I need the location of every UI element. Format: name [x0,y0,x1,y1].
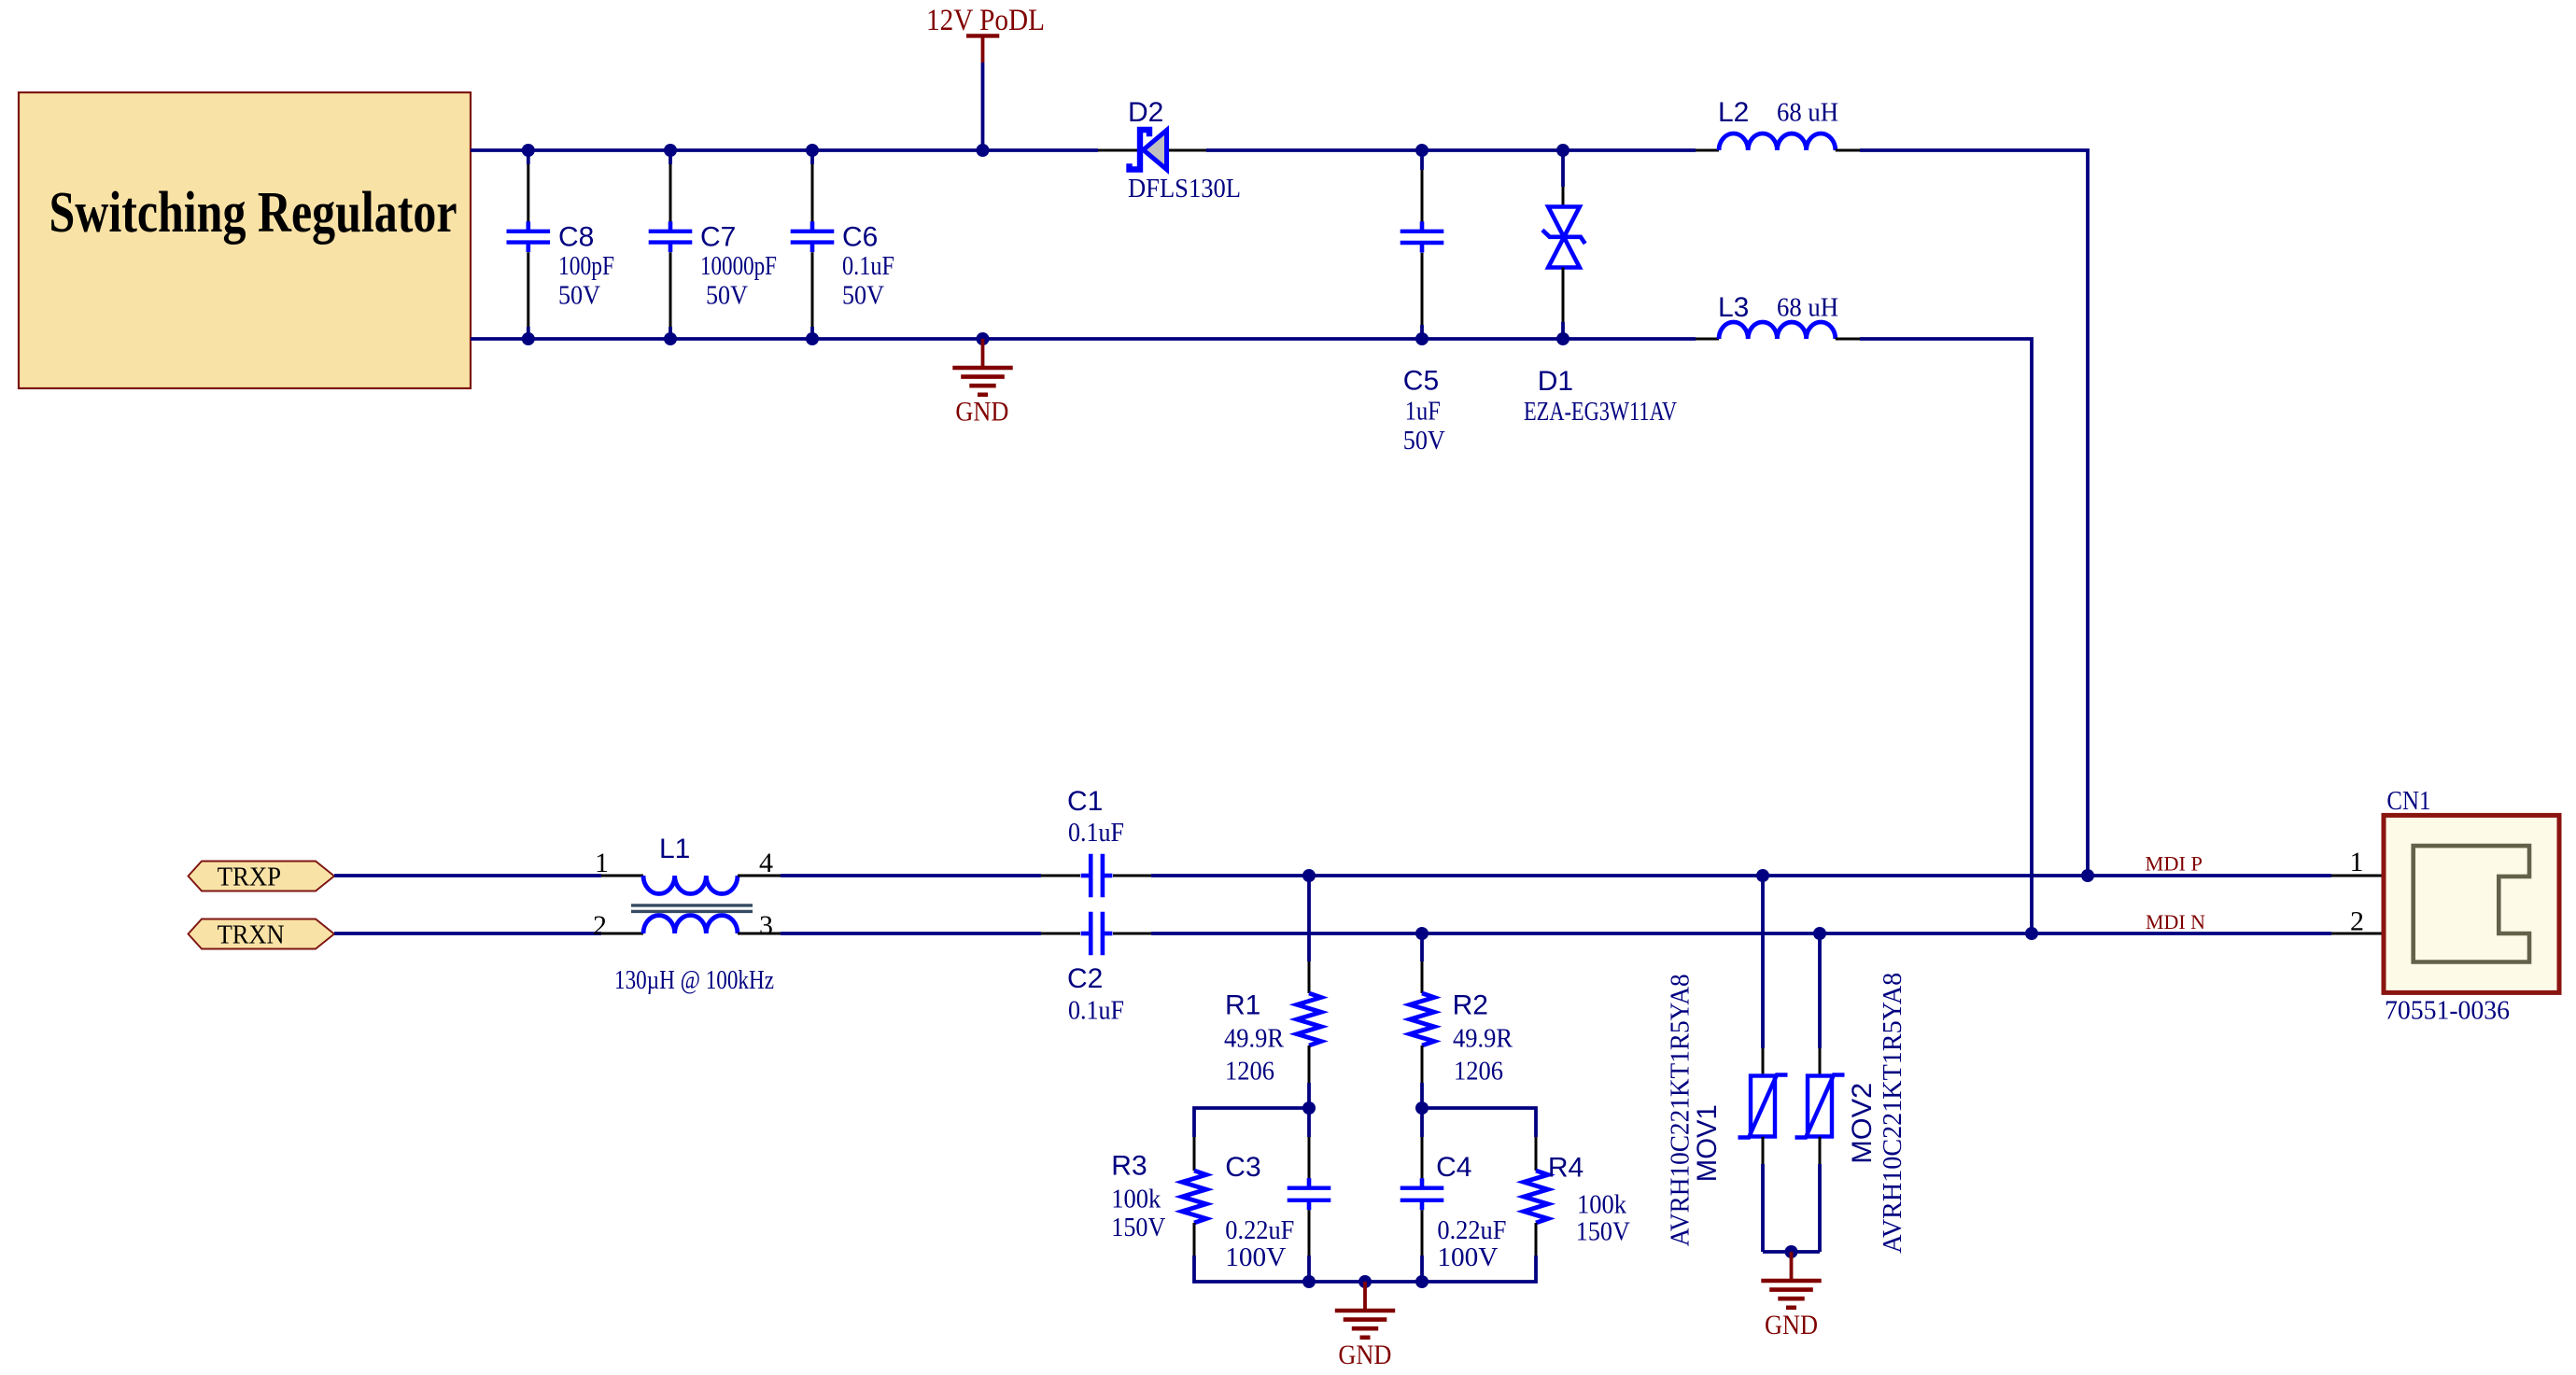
svg-text:1206: 1206 [1454,1058,1503,1087]
svg-text:GND: GND [1338,1340,1391,1370]
port TRXP [189,862,335,891]
svg-text:1uF: 1uF [1405,398,1441,427]
wire: bottom rail L3 to corner and down to MDI_N [1860,339,2032,933]
common-mode choke L1 130uH@100kHz [601,875,643,877]
wire: TRXP to L1 pin1 [334,874,601,877]
wire: top rail D2 to L2 [1206,148,1696,152]
svg-text:50V: 50V [1403,427,1445,456]
svg-text:C5: C5 [1403,366,1439,397]
diode D2 DFLS130L schottky [1098,149,1137,152]
svg-text:C8: C8 [558,222,594,253]
ground symbol GND (upper) [981,339,985,368]
capacitor C4 0.22uF 100V [1420,1108,1424,1137]
svg-text:130µH @ 100kHz: 130µH @ 100kHz [614,966,774,995]
svg-text:MOV1: MOV1 [1692,1104,1723,1182]
svg-text:MOV2: MOV2 [1847,1083,1878,1164]
svg-text:0.1uF: 0.1uF [1068,819,1124,848]
svg-text:MDI P: MDI P [2146,852,2203,876]
svg-text:AVRH10C221KT1R5YA8: AVRH10C221KT1R5YA8 [1667,974,1696,1246]
svg-text:100k: 100k [1111,1186,1161,1214]
svg-text:L1: L1 [659,834,690,864]
varistor MOV1 AVRH10C221KT1R5YA8 [1756,869,1769,882]
svg-text:MDI N: MDI N [2146,910,2205,933]
varistor MOV2 AVRH10C221KT1R5YA8 [1813,927,1826,940]
capacitor C8 100pF 50V [522,144,535,157]
junction GND stub on RC rail [1358,1275,1372,1288]
junction R1/C3 node [1302,1101,1316,1115]
capacitor C1 0.1uF [1041,875,1080,877]
wire: R1 node to R3 top [1194,1108,1309,1137]
svg-text:1: 1 [2350,847,2364,877]
svg-text:GND: GND [955,397,1008,428]
svg-text:TRXP: TRXP [218,862,282,891]
junction R2/C4 node [1415,1101,1429,1115]
svg-text:R3: R3 [1111,1151,1147,1182]
junction L3 branch onto MDI_N [2025,927,2038,940]
svg-text:C1: C1 [1067,786,1103,817]
svg-text:100V: 100V [1225,1243,1286,1272]
svg-text:150V: 150V [1576,1217,1630,1246]
svg-text:150V: 150V [1111,1214,1165,1242]
svg-text:GND: GND [1765,1310,1818,1340]
wire: C1 to MDI_P / connector pin1 [1151,874,2331,877]
svg-text:50V: 50V [706,282,748,311]
wire: TRXN to L1 pin2 [334,932,601,935]
svg-text:100k: 100k [1577,1191,1626,1220]
capacitor C7 10000pF 50V [664,144,677,157]
svg-text:0.22uF: 0.22uF [1437,1216,1506,1245]
svg-text:12V PoDL: 12V PoDL [926,4,1045,37]
wire: RC network GND rail [1309,1280,1422,1284]
svg-text:D2: D2 [1128,97,1163,128]
svg-text:TRXN: TRXN [218,919,285,949]
junction GND node on bottom rail [977,332,990,345]
wire: bottom rail from regulator to L3 [471,337,1696,341]
resistor R4 100k 150V [1535,1137,1538,1171]
svg-text:CN1: CN1 [2386,787,2430,816]
svg-text:68 uH: 68 uH [1777,99,1838,128]
svg-text:L3: L3 [1718,292,1749,323]
svg-text:68 uH: 68 uH [1777,294,1838,323]
svg-text:50V: 50V [558,282,600,311]
svg-text:R2: R2 [1453,990,1488,1021]
wire: MOV bottom rail [1763,1250,1820,1254]
svg-text:L2: L2 [1718,97,1749,128]
wire: R2 node to R4 top [1422,1108,1536,1137]
inductor L3 68uH [1696,338,1719,341]
svg-text:DFLS130L: DFLS130L [1128,175,1241,203]
ground symbol GND (MOV) [1790,1252,1794,1281]
svg-text:AVRH10C221KT1R5YA8: AVRH10C221KT1R5YA8 [1879,973,1907,1254]
resistor R2 49.9R 1206 [1415,927,1429,940]
svg-text:C2: C2 [1067,963,1103,994]
junction C3 bottom [1302,1275,1316,1288]
svg-text:50V: 50V [842,282,884,311]
svg-text:49.9R: 49.9R [1453,1025,1513,1054]
svg-text:0.1uF: 0.1uF [1068,997,1124,1026]
wire: R4 bottom to GND rail [1422,1256,1536,1282]
svg-text:0.1uF: 0.1uF [842,252,894,281]
port TRXN [189,919,335,949]
svg-text:3: 3 [759,910,773,941]
capacitor C5 1uF 50V [1415,144,1429,157]
power port 12V_PoDL [966,34,999,37]
wire: L1 pin4 to C1 [781,874,1041,877]
capacitor C6 0.1uF 50V [806,144,819,157]
svg-text:2: 2 [593,910,607,941]
svg-text:C6: C6 [842,222,878,253]
wire: C2 to MDI_N / connector pin2 [1151,932,2331,935]
svg-text:10000pF: 10000pF [700,252,777,281]
junction L2 branch onto MDI_P [2081,869,2094,882]
wire: R3 bottom to GND rail [1194,1256,1309,1282]
svg-text:Switching Regulator: Switching Regulator [49,181,457,245]
svg-text:0.22uF: 0.22uF [1225,1216,1294,1245]
resistor R1 49.9R 1206 [1302,869,1316,882]
junction MOV GND [1785,1245,1798,1258]
svg-text:4: 4 [759,848,773,878]
svg-text:100pF: 100pF [558,252,614,281]
svg-text:70551-0036: 70551-0036 [2385,997,2510,1026]
inductor L2 68uH [1696,149,1719,152]
junction C4 bottom [1415,1275,1429,1288]
resistor R3 100k 150V [1193,1137,1196,1171]
wire: top rail from regulator to D2 [471,148,1098,152]
svg-text:R1: R1 [1225,990,1260,1021]
sheet symbol: Switching Regulator block [19,92,471,388]
ground symbol GND (RC network) [1363,1282,1367,1311]
TVS diode D1 EZA-EG3W11AV [1556,144,1570,157]
svg-text:C4: C4 [1436,1152,1471,1183]
connector CN1 70551-0036 [2331,875,2385,877]
svg-text:EZA-EG3W11AV: EZA-EG3W11AV [1524,398,1677,427]
capacitor C3 0.22uF 100V [1307,1108,1311,1137]
svg-text:C3: C3 [1225,1152,1260,1183]
svg-text:2: 2 [2350,906,2364,937]
svg-text:1206: 1206 [1225,1058,1274,1087]
svg-text:C7: C7 [700,222,736,253]
junction 12V on top rail [977,144,990,157]
wire: top rail L2 to corner and down to MDI_P [1860,150,2088,876]
svg-text:1: 1 [595,848,609,878]
svg-text:D1: D1 [1538,366,1573,397]
svg-text:49.9R: 49.9R [1224,1025,1284,1054]
wire: L1 pin3 to C2 [781,932,1041,935]
svg-text:100V: 100V [1437,1243,1498,1272]
capacitor C2 0.1uF [1041,933,1080,935]
svg-text:R4: R4 [1548,1153,1584,1184]
